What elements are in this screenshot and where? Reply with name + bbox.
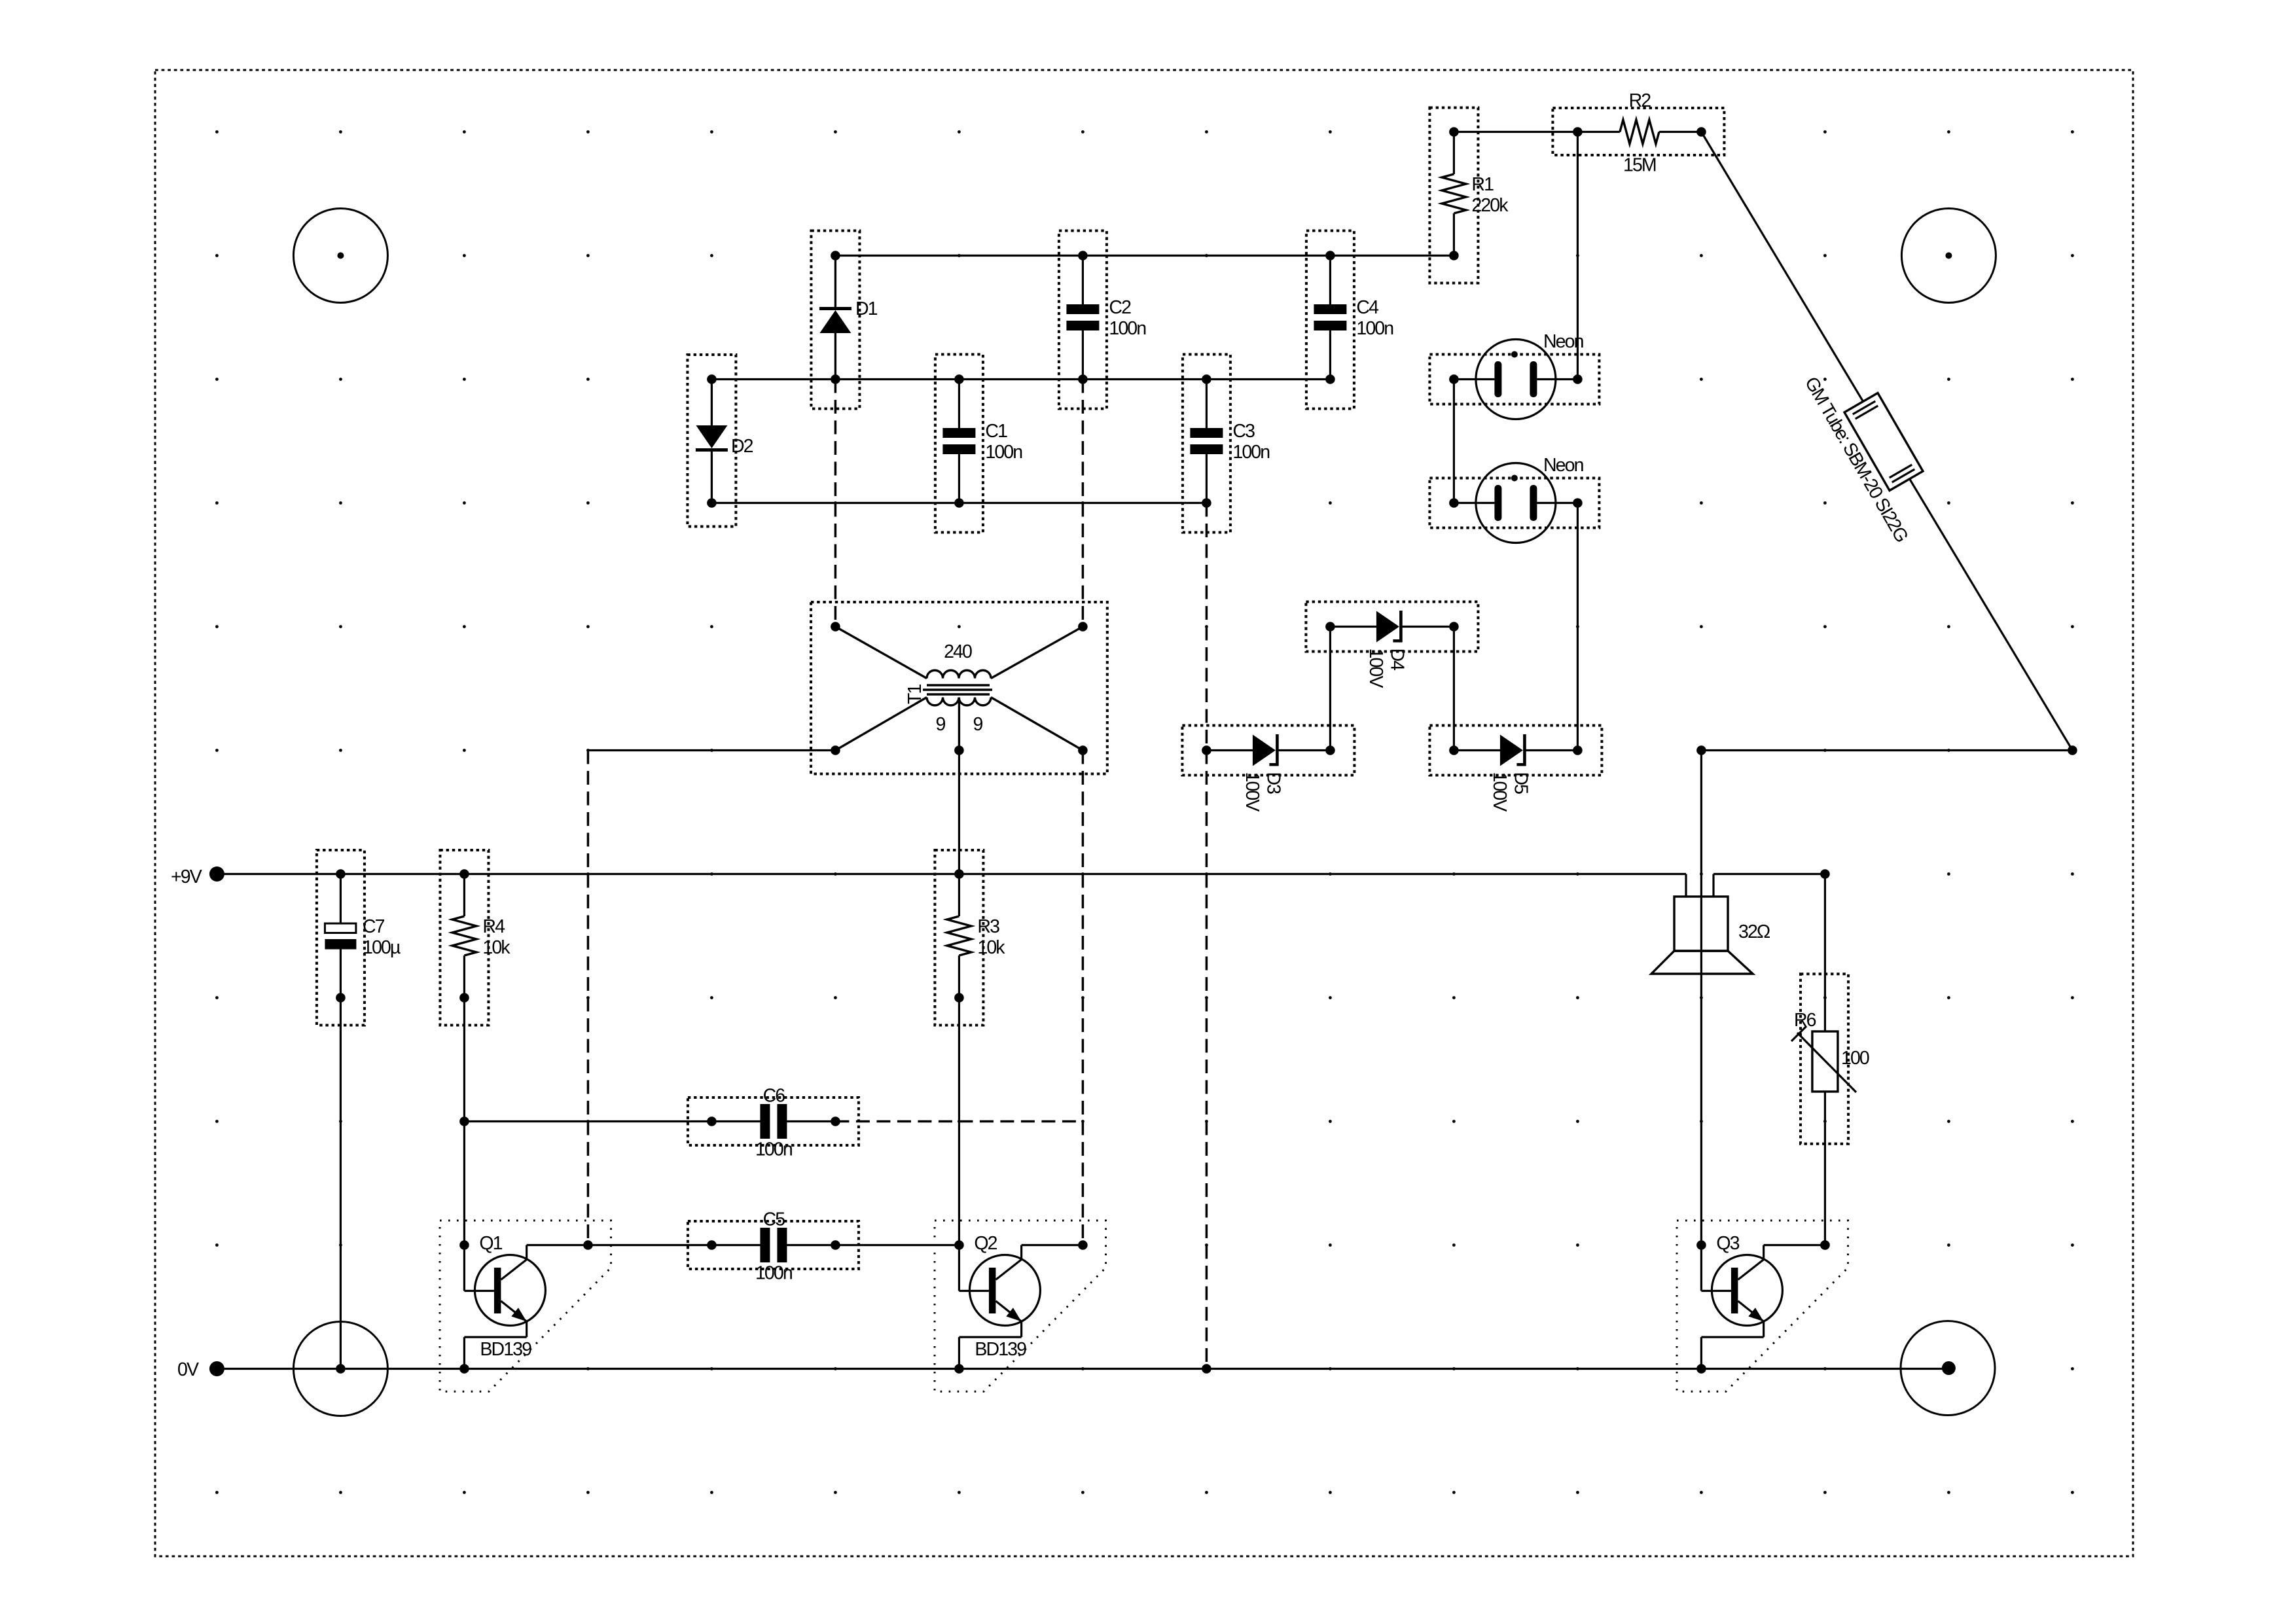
junction R6 bottom Q3 collector <box>1820 1240 1830 1250</box>
svg-text:240: 240 <box>944 641 972 662</box>
wire R1 top to R2 <box>1454 131 1577 133</box>
junction diagonal bottom <box>2068 745 2077 755</box>
junction T1 pin4 <box>1078 745 1088 755</box>
svg-text:100n: 100n <box>1356 318 1393 339</box>
mounting hole top-left <box>293 209 387 303</box>
capacitor C5 <box>688 1221 859 1269</box>
junction +9V R4 <box>459 869 469 879</box>
label C2 value <box>1109 297 1145 339</box>
svg-text:C6: C6 <box>763 1086 785 1107</box>
label speaker 32ohm <box>1738 921 1770 942</box>
wire +HV top rail <box>835 255 1454 257</box>
diode D1 <box>811 231 859 409</box>
junction neon2 left <box>1449 498 1459 508</box>
label R4 value <box>482 916 511 958</box>
junction D1 bottom <box>831 374 840 384</box>
svg-text:15M: 15M <box>1623 155 1656 176</box>
label Neon 1 <box>1543 331 1583 352</box>
terminal 0V right end <box>1942 1361 1956 1375</box>
wire neon1 left down to neon2 left <box>1453 380 1455 503</box>
junction 0V Q2 emitter <box>954 1364 964 1374</box>
label C1 value <box>985 421 1022 463</box>
wire R2 junction down to neon1 <box>1577 132 1579 380</box>
dashed wire C6 to Q2 collector net <box>835 1120 1083 1123</box>
junction speaker R6 node <box>1820 869 1830 879</box>
label D2 <box>731 436 753 457</box>
speaker 32ohm <box>1651 751 1825 1245</box>
svg-text:100n: 100n <box>755 1139 792 1160</box>
svg-text:BD139: BD139 <box>975 1339 1026 1360</box>
junction C2 bottom <box>1078 374 1088 384</box>
GM tube SBM-20 <box>1844 393 1923 491</box>
resistor R2 <box>1552 108 1724 155</box>
page border <box>155 70 2133 1556</box>
junction D3 left <box>1202 745 1211 755</box>
junction D4 left <box>1325 622 1335 632</box>
label C7 value <box>363 916 401 958</box>
trimmer R6 <box>1791 874 1856 1245</box>
dashed wire T1 pin3 down to Q1 collector <box>587 751 590 1245</box>
svg-text:Q1: Q1 <box>479 1233 502 1254</box>
label D5 <box>1510 772 1531 794</box>
label 0V <box>177 1359 199 1380</box>
junction D1 top <box>831 251 840 260</box>
junction C1 top <box>954 374 964 384</box>
dashed wire C3 to 0V <box>1206 503 1208 1369</box>
junction D3 right <box>1325 745 1335 755</box>
junction Q3 base node <box>1696 1240 1706 1250</box>
svg-text:R1: R1 <box>1471 174 1494 195</box>
diode D4 <box>1306 602 1478 652</box>
svg-text:C5: C5 <box>763 1209 785 1230</box>
svg-text:C7: C7 <box>363 916 385 937</box>
junction Q1 base node <box>459 1240 469 1250</box>
svg-text:100V: 100V <box>1365 649 1386 688</box>
resistor R4 <box>440 850 488 1026</box>
junction D5 left <box>1449 745 1459 755</box>
svg-text:D5: D5 <box>1510 772 1531 794</box>
svg-text:9: 9 <box>936 714 946 735</box>
junction T1 center tap <box>954 745 964 755</box>
junction C4 top <box>1325 251 1335 260</box>
junction C3 bottom <box>1202 498 1211 508</box>
label R1 value <box>1471 174 1509 216</box>
capacitor C6 <box>688 1097 859 1145</box>
mounting hole bottom-right <box>1901 1321 1995 1416</box>
svg-text:D3: D3 <box>1263 772 1283 794</box>
transformer T1 <box>811 602 1107 774</box>
svg-text:10k: 10k <box>482 937 511 958</box>
wire C5 to Q2 base junction <box>835 1244 959 1246</box>
svg-text:9: 9 <box>973 714 983 735</box>
wire multiplier lower rail <box>711 502 1206 504</box>
capacitor C4 <box>1306 231 1354 409</box>
junction 0V Q3 emitter <box>1696 1364 1706 1374</box>
svg-text:Neon: Neon <box>1543 455 1583 476</box>
svg-text:220k: 220k <box>1471 195 1509 216</box>
junction C4 bottom <box>1325 374 1335 384</box>
junction C6 tap on R4 wire <box>459 1116 469 1126</box>
grid dots <box>215 130 2074 1494</box>
junction C3 dashed at 0V <box>1202 1364 1211 1374</box>
transistor Q1 BD139 <box>440 1221 611 1391</box>
svg-text:0V: 0V <box>177 1359 199 1380</box>
transistor Q3 <box>1677 1221 1848 1391</box>
mounting hole bottom-left <box>293 1322 387 1416</box>
wire D4 left to D3 right <box>1329 627 1331 751</box>
svg-text:D2: D2 <box>731 436 753 457</box>
junction R2 right node <box>1696 127 1706 137</box>
mounting hole top-right <box>1901 209 1996 303</box>
transistor Q2 BD139 <box>935 1221 1106 1391</box>
wire GM tube diagonal <box>1701 132 2072 751</box>
junction +9V C7 <box>336 869 346 879</box>
wire R4 to Q1 <box>463 998 465 1245</box>
label +9V <box>171 866 202 887</box>
label T1 secondary 9 left <box>936 714 946 735</box>
junction Q2 collector node <box>1078 1240 1088 1250</box>
svg-text:D1: D1 <box>855 298 878 319</box>
junction D4 right <box>1449 622 1459 632</box>
junction D5 right <box>1573 745 1583 755</box>
junction Q2 base node <box>954 1240 964 1250</box>
label C5 value <box>755 1263 792 1284</box>
wire R3 to Q2 <box>958 998 960 1245</box>
svg-text:100V: 100V <box>1489 772 1510 812</box>
wire neon2 right down to D5 <box>1577 503 1579 751</box>
junction T1 pin2 <box>1078 622 1088 632</box>
resistor R1 <box>1429 108 1478 283</box>
diode D3 <box>1182 726 1354 776</box>
terminal +9V <box>209 866 224 882</box>
svg-text:C2: C2 <box>1109 297 1131 318</box>
junction Q3 collector node <box>1820 1240 1830 1250</box>
terminal 0V <box>209 1361 224 1376</box>
junction C6 right <box>831 1116 840 1126</box>
junction C5 right <box>831 1240 840 1250</box>
svg-text:100µ: 100µ <box>363 937 401 958</box>
svg-text:R4: R4 <box>482 916 505 937</box>
capacitor C1 <box>935 355 983 533</box>
diode D2 <box>687 355 736 527</box>
junction neon1 left <box>1449 374 1459 384</box>
wire anode row <box>1701 749 2072 751</box>
wire 0V rail <box>217 1368 1948 1370</box>
junction R2 left node <box>1573 127 1583 137</box>
label D5 value <box>1489 772 1510 812</box>
svg-text:10k: 10k <box>977 937 1005 958</box>
capacitor C3 <box>1183 355 1230 533</box>
neon lamp NE2 <box>1429 463 1599 543</box>
svg-text:R6: R6 <box>1794 1010 1816 1031</box>
wire T1 pin3 to corner <box>588 749 835 751</box>
junction C2 top <box>1078 251 1088 260</box>
wire Q1 collector to C5 <box>588 1244 711 1246</box>
label R2 value 15M <box>1623 155 1656 176</box>
capacitor C2 <box>1059 231 1107 409</box>
wire +9V rail <box>217 873 1686 875</box>
junction C1 bottom <box>954 498 964 508</box>
svg-text:C3: C3 <box>1232 421 1255 442</box>
dashed wire T1 pin4 down to Q2 collector <box>1082 751 1085 1245</box>
svg-text:T1: T1 <box>905 684 925 704</box>
label C3 value <box>1232 421 1269 463</box>
junction C3 top <box>1202 374 1211 384</box>
junction Q1 collector node <box>583 1240 593 1250</box>
svg-text:C1: C1 <box>985 421 1007 442</box>
svg-text:100V: 100V <box>1242 772 1263 812</box>
junction 0V Q1 emitter <box>459 1364 469 1374</box>
wire C7 to 0V <box>340 998 342 1369</box>
junction R3 bottom <box>954 993 964 1003</box>
wire R4 line to C6 <box>464 1120 711 1122</box>
svg-text:C4: C4 <box>1356 297 1379 318</box>
label D1 <box>855 298 878 319</box>
label C6 <box>763 1086 785 1107</box>
svg-text:Q3: Q3 <box>1716 1233 1739 1254</box>
svg-text:100: 100 <box>1841 1048 1869 1069</box>
dashed wire D1 to T1 pin1 <box>834 380 837 627</box>
junction T1 pin3 <box>831 745 840 755</box>
diode D5 <box>1429 726 1602 776</box>
junction R1 top <box>1449 127 1459 137</box>
label GM tube <box>1801 374 1912 546</box>
label C6 value <box>755 1139 792 1160</box>
wire D4 right to D5 left <box>1453 627 1455 751</box>
label Neon 2 <box>1543 455 1583 476</box>
label R6 <box>1794 1010 1816 1031</box>
svg-text:100n: 100n <box>1109 318 1145 339</box>
label T1 secondary 9 right <box>973 714 983 735</box>
svg-text:Neon: Neon <box>1543 331 1583 352</box>
label R6 value <box>1841 1048 1869 1069</box>
junction D2 bottom <box>707 498 717 508</box>
junction 0V C7 <box>336 1364 346 1374</box>
label D4 <box>1386 649 1407 671</box>
label T1 primary 240 <box>944 641 972 662</box>
junction neon2 right <box>1573 498 1583 508</box>
label C5 <box>763 1209 785 1230</box>
svg-text:R2: R2 <box>1629 90 1651 111</box>
svg-text:+9V: +9V <box>171 866 202 887</box>
junction D2 top <box>707 374 717 384</box>
svg-text:BD139: BD139 <box>480 1339 531 1360</box>
label C4 value <box>1356 297 1393 339</box>
label R3 value <box>977 916 1005 958</box>
svg-text:100n: 100n <box>755 1263 792 1284</box>
svg-text:100n: 100n <box>985 442 1022 463</box>
junction +9V R3 <box>954 869 964 879</box>
junction anode row left <box>1696 745 1706 755</box>
label D3 value <box>1242 772 1263 812</box>
svg-text:100n: 100n <box>1232 442 1269 463</box>
label T1 <box>905 684 925 704</box>
junction C7 bottom <box>336 993 346 1003</box>
junction C5 left <box>707 1240 717 1250</box>
junction neon1 right <box>1573 374 1583 384</box>
capacitor C7 <box>317 850 365 1026</box>
svg-text:32Ω: 32Ω <box>1738 921 1770 942</box>
label D3 <box>1263 772 1283 794</box>
svg-text:R3: R3 <box>977 916 999 937</box>
wire multiplier mid rail <box>711 378 1330 380</box>
junction R1 bottom <box>1449 251 1459 260</box>
resistor R3 <box>935 850 983 1026</box>
neon lamp NE1 <box>1429 340 1599 419</box>
label R2 <box>1629 90 1651 111</box>
junction C6 left <box>707 1116 717 1126</box>
junction R4 bottom <box>459 993 469 1003</box>
wire T1 center tap down to +9V <box>958 751 960 874</box>
junction T1 pin1 <box>831 622 840 632</box>
svg-text:D4: D4 <box>1386 649 1407 671</box>
dashed wire C2 to T1 pin2 <box>1082 380 1085 627</box>
label D4 value <box>1365 649 1386 688</box>
svg-text:Q2: Q2 <box>974 1233 997 1254</box>
